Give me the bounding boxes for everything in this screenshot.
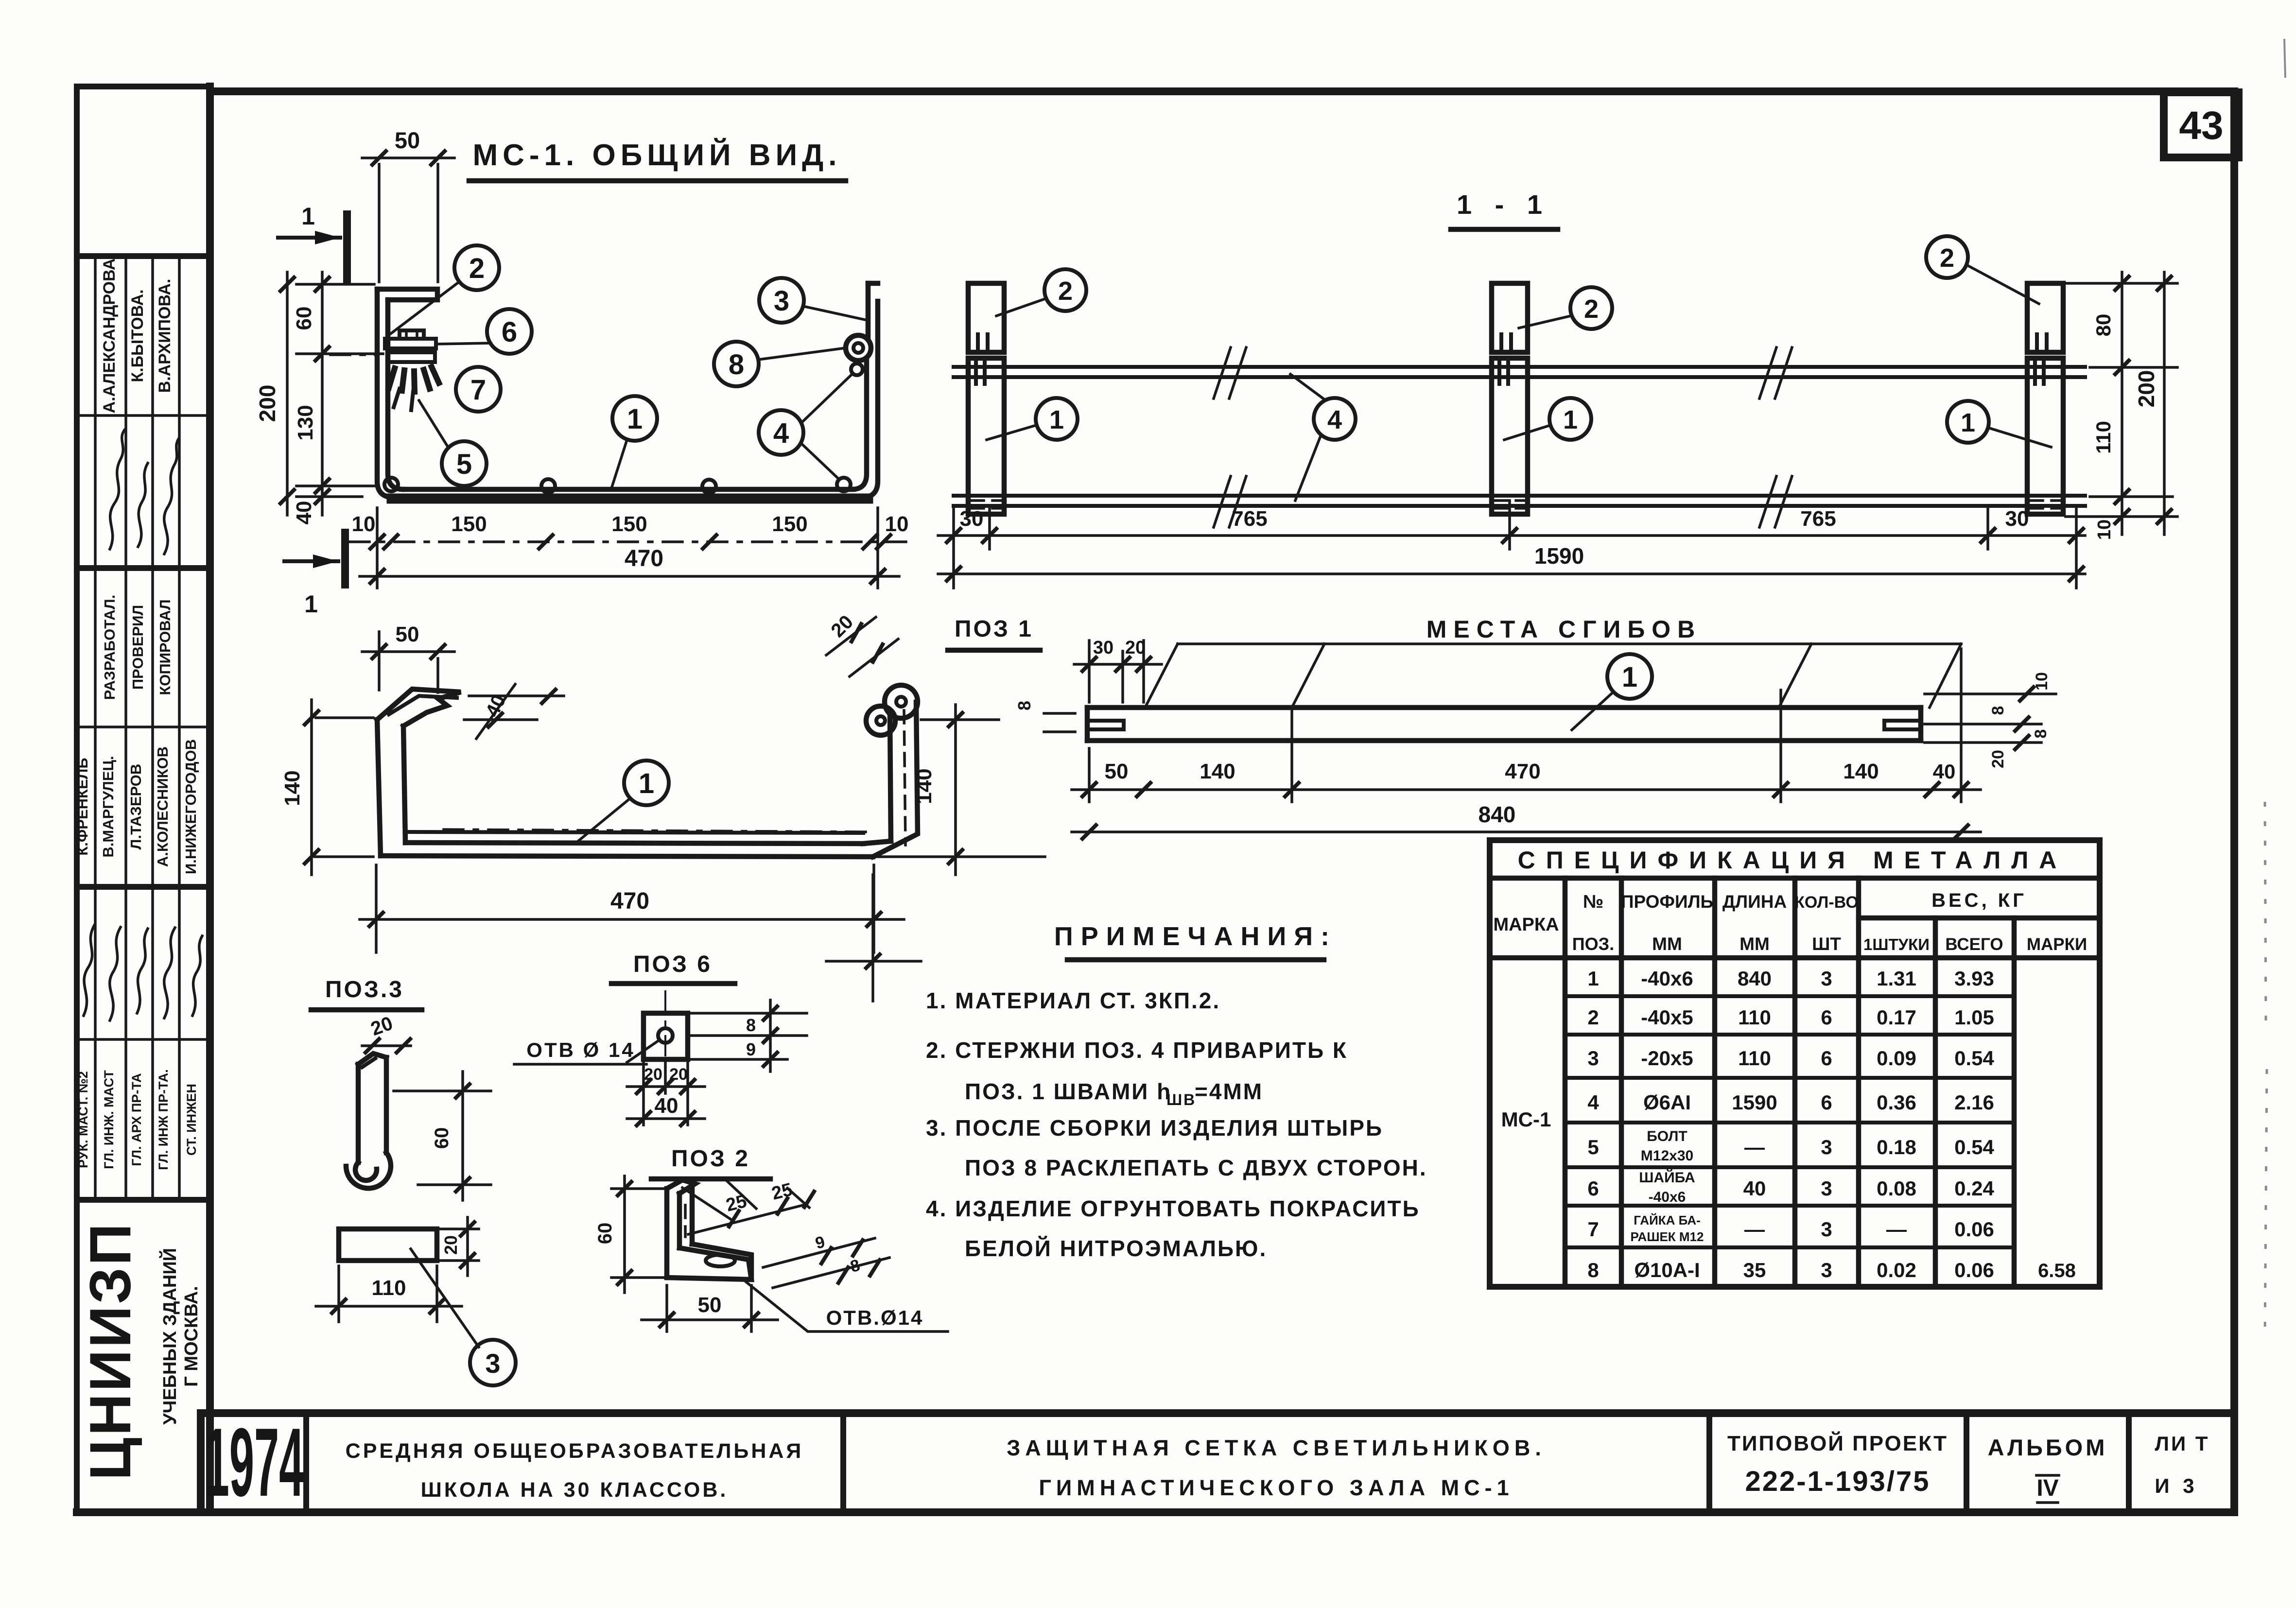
poz 2 hole label ОТВ.Ø14 xyxy=(746,1282,948,1331)
svg-text:50: 50 xyxy=(698,1293,722,1317)
svg-text:470: 470 xyxy=(610,888,649,914)
svg-text:—: — xyxy=(1744,1218,1765,1241)
svg-text:20: 20 xyxy=(644,1065,662,1084)
3D view right dim 140 xyxy=(875,705,1045,875)
svg-text:60: 60 xyxy=(594,1223,616,1245)
svg-text:К.БЫТОВА.: К.БЫТОВА. xyxy=(128,289,147,382)
bottom dims 10/150/150/150/10 xyxy=(350,508,909,588)
bottom rail visible across posts xyxy=(965,496,2067,506)
sheet number box 43 xyxy=(2164,92,2239,157)
svg-text:6: 6 xyxy=(502,316,517,348)
svg-text:2: 2 xyxy=(469,253,485,284)
development dims 50/140/470/140/40 xyxy=(1072,649,1981,802)
stamp column horizontal dividers xyxy=(77,256,210,1200)
right side dims of 1-1: 80/200/110/10 xyxy=(2066,272,2177,540)
svg-text:10: 10 xyxy=(2033,672,2051,691)
svg-text:ШАЙБА: ШАЙБА xyxy=(1639,1169,1695,1186)
svg-text:В.АРХИПОВА.: В.АРХИПОВА. xyxy=(156,279,174,393)
3D view dim 40 diagonal xyxy=(464,684,564,739)
svg-text:ВЕС, КГ: ВЕС, КГ xyxy=(1931,890,2027,911)
stray dim cross right of 3D view xyxy=(826,875,921,1001)
svg-text:4: 4 xyxy=(1327,405,1342,434)
section mark 1 bottom xyxy=(284,533,345,618)
faint scan marks right margin xyxy=(2265,39,2285,1336)
svg-text:ПОЗ 8 РАСКЛЕПАТЬ С ДВУХ С: ПОЗ 8 РАСКЛЕПАТЬ С ДВУХ СТОРОН. xyxy=(965,1155,1427,1180)
dim column 60/130/40 left xyxy=(292,272,383,524)
svg-text:6: 6 xyxy=(1821,1006,1832,1029)
svg-text:30: 30 xyxy=(960,507,984,531)
break marks on rails xyxy=(1214,347,1792,527)
svg-text:МС-1: МС-1 xyxy=(1501,1108,1551,1131)
svg-text:4. ИЗДЕЛИЕ ОГРУНТОВАТЬ ПО: 4. ИЗДЕЛИЕ ОГРУНТОВАТЬ ПОКРАСИТЬ xyxy=(926,1196,1420,1221)
svg-text:0.18: 0.18 xyxy=(1877,1136,1916,1158)
svg-text:IV: IV xyxy=(2036,1475,2058,1501)
svg-text:И.НИЖЕГОРОДОВ: И.НИЖЕГОРОДОВ xyxy=(182,739,199,874)
svg-text:8: 8 xyxy=(1989,706,2007,715)
balloon 7 xyxy=(456,367,501,412)
svg-text:ПОЗ.: ПОЗ. xyxy=(1572,934,1614,954)
svg-text:222-1-193/75: 222-1-193/75 xyxy=(1745,1466,1930,1497)
svg-text:1.31: 1.31 xyxy=(1877,967,1916,990)
3D view balloon 1 xyxy=(577,761,669,842)
svg-text:1 - 1: 1 - 1 xyxy=(1457,189,1550,220)
title strip: album xyxy=(1988,1435,2108,1503)
svg-text:9: 9 xyxy=(746,1039,756,1059)
svg-text:№: № xyxy=(1583,892,1603,912)
svg-text:ГЛ. АРХ ПР-ТА: ГЛ. АРХ ПР-ТА xyxy=(129,1073,144,1166)
left wall (3D) xyxy=(377,720,381,856)
спецификация металла table xyxy=(1490,840,2100,1287)
svg-text:2: 2 xyxy=(1584,294,1599,324)
svg-text:0.17: 0.17 xyxy=(1877,1006,1916,1029)
svg-text:140: 140 xyxy=(280,770,304,806)
svg-text:ОТВ.Ø14: ОТВ.Ø14 xyxy=(826,1306,924,1329)
svg-text:1974: 1974 xyxy=(205,1408,304,1517)
svg-text:1: 1 xyxy=(1049,405,1064,434)
bottom dims of 1-1: 30/765/765/30 xyxy=(938,501,2085,588)
poz 2 angle bracket 3D xyxy=(667,1180,751,1279)
svg-text:2: 2 xyxy=(1940,243,1954,273)
svg-text:1. МАТЕРИАЛ СТ. 3КП.2.: 1. МАТЕРИАЛ СТ. 3КП.2. xyxy=(926,988,1220,1013)
balloon 4 (1-1) xyxy=(1290,374,1356,501)
svg-text:3: 3 xyxy=(774,285,789,317)
poz 2 detail label xyxy=(651,1146,770,1179)
title strip: project number xyxy=(1727,1431,1948,1497)
svg-text:0.54: 0.54 xyxy=(1954,1136,1994,1158)
svg-text:1ШТУКИ: 1ШТУКИ xyxy=(1863,935,1930,953)
svg-text:0.54: 0.54 xyxy=(1954,1047,1994,1070)
svg-text:20: 20 xyxy=(669,1065,688,1084)
svg-text:0.24: 0.24 xyxy=(1954,1177,1994,1200)
svg-text:МАРКА: МАРКА xyxy=(1493,915,1559,935)
title strip: sheet xyxy=(2155,1432,2209,1497)
svg-text:Ø6АI: Ø6АI xyxy=(1643,1091,1691,1114)
stamp rotated names band 2 xyxy=(74,739,199,874)
channel bottom xyxy=(392,494,868,504)
balloon 2 (cross-section) xyxy=(390,245,499,334)
svg-text:3: 3 xyxy=(1821,1259,1832,1281)
svg-text:7: 7 xyxy=(470,374,486,406)
svg-text:140: 140 xyxy=(1200,760,1235,783)
svg-text:0.06: 0.06 xyxy=(1954,1259,1994,1281)
development small dims 30 20 left xyxy=(1074,638,1162,702)
svg-text:Г МОСКВА.: Г МОСКВА. xyxy=(181,1286,202,1387)
table title row xyxy=(1490,876,2100,881)
svg-text:ГЛ. ИНЖ. МАСТ: ГЛ. ИНЖ. МАСТ xyxy=(102,1070,116,1169)
svg-text:0.02: 0.02 xyxy=(1877,1259,1916,1281)
svg-text:30: 30 xyxy=(2005,507,2029,531)
svg-text:ПОЗ 1: ПОЗ 1 xyxy=(955,616,1033,642)
svg-text:2. СТЕРЖНИ ПОЗ. 4 ПРИВАРИТ: 2. СТЕРЖНИ ПОЗ. 4 ПРИВАРИТЬ К xyxy=(926,1037,1348,1063)
bottom dim 1590 of 1-1 xyxy=(938,543,2085,581)
svg-text:КОЛ-ВО: КОЛ-ВО xyxy=(1794,893,1859,912)
svg-text:140: 140 xyxy=(912,768,936,804)
stamp signatures band 2 xyxy=(84,925,202,1020)
svg-text:3: 3 xyxy=(1821,1136,1832,1158)
right S-hook end xyxy=(1918,708,1924,741)
balloon 1 right (1-1) xyxy=(1947,401,2051,447)
table row lines xyxy=(1565,994,2014,998)
svg-text:-40x6: -40x6 xyxy=(1641,967,1693,990)
svg-text:ПОЗ. 1 ШВАМИ h: ПОЗ. 1 ШВАМИ h xyxy=(965,1079,1172,1104)
cross-section МС-1: channel body poz 1 xyxy=(377,283,878,499)
svg-text:140: 140 xyxy=(1843,760,1879,783)
svg-text:1590: 1590 xyxy=(1732,1091,1777,1114)
poz 3 dim 60 (right of hook) xyxy=(394,1072,491,1200)
poz 3 hook 3D xyxy=(346,1054,391,1188)
svg-text:6: 6 xyxy=(1587,1177,1599,1200)
balloon 2 center (1-1) xyxy=(1519,287,1612,329)
balloon 5 xyxy=(419,400,487,486)
poz 6 right dims 8/9 xyxy=(690,1000,807,1072)
svg-text:ДЛИНА: ДЛИНА xyxy=(1722,892,1787,912)
svg-text:110: 110 xyxy=(1738,1006,1771,1029)
top lip (3D) with notch xyxy=(377,689,461,726)
svg-text:СТ. ИНЖЕН: СТ. ИНЖЕН xyxy=(184,1084,199,1156)
svg-text:3: 3 xyxy=(1587,1047,1599,1070)
svg-text:ЛИ Т: ЛИ Т xyxy=(2155,1432,2210,1455)
svg-text:ЗАЩИТНАЯ СЕТКА СВЕТИЛЬНИКО: ЗАЩИТНАЯ СЕТКА СВЕТИЛЬНИКОВ. xyxy=(1007,1435,1546,1460)
title МС-1 Общий вид xyxy=(469,138,846,181)
svg-text:0.09: 0.09 xyxy=(1877,1047,1916,1070)
svg-text:1: 1 xyxy=(1563,405,1578,434)
svg-text:30: 30 xyxy=(1093,638,1113,658)
svg-text:8: 8 xyxy=(729,349,744,380)
svg-text:8: 8 xyxy=(1014,701,1034,710)
svg-text:40: 40 xyxy=(292,501,316,525)
svg-text:50: 50 xyxy=(1105,760,1129,783)
svg-text:110: 110 xyxy=(2092,421,2115,454)
bottom slab (3D) xyxy=(381,856,873,857)
svg-text:8: 8 xyxy=(1587,1259,1599,1281)
svg-text:-40х6: -40х6 xyxy=(1649,1189,1686,1205)
svg-text:840: 840 xyxy=(1738,967,1772,990)
horizontal leg top face xyxy=(667,1248,751,1279)
svg-text:Л.ТАЗЕРОВ: Л.ТАЗЕРОВ xyxy=(127,764,144,850)
stamp signatures band 1 xyxy=(110,430,179,554)
svg-text:ПРОВЕРИЛ: ПРОВЕРИЛ xyxy=(129,605,146,690)
stamp rotated roles band 2 xyxy=(76,1069,199,1170)
stamp logo ЦНИИЭП xyxy=(78,1222,202,1480)
svg-text:1: 1 xyxy=(1622,661,1637,693)
bolt head xyxy=(400,330,424,339)
svg-text:3: 3 xyxy=(1821,1177,1832,1200)
svg-text:6.58: 6.58 xyxy=(2038,1260,2076,1281)
poz 1 development strip xyxy=(1087,708,1921,741)
svg-text:765: 765 xyxy=(1232,507,1267,531)
svg-text:ГАЙКА БА-: ГАЙКА БА- xyxy=(1634,1213,1701,1228)
svg-text:БОЛТ: БОЛТ xyxy=(1647,1128,1687,1144)
svg-text:ПРИМЕЧАНИЯ:: ПРИМЕЧАНИЯ: xyxy=(1054,922,1337,951)
rolled bottom curl xyxy=(346,1153,391,1188)
bolt assembly: washer poz 6, bolt poz 5, wing nut poz 7 xyxy=(330,330,439,410)
balloon 4 (cross-section) xyxy=(759,374,852,479)
svg-text:1: 1 xyxy=(627,403,643,435)
section 1-1: right post poz 1 with clamp poz 2 xyxy=(2027,283,2063,514)
svg-text:2: 2 xyxy=(1058,277,1073,306)
svg-text:КОПИРОВАЛ: КОПИРОВАЛ xyxy=(157,599,174,695)
svg-text:А.КОЛЕСНИКОВ: А.КОЛЕСНИКОВ xyxy=(154,746,171,867)
svg-text:3.93: 3.93 xyxy=(1954,967,1994,990)
svg-text:РАШЕК М12: РАШЕК М12 xyxy=(1631,1229,1704,1244)
poz 6 washer plate xyxy=(627,991,688,1081)
svg-text:20: 20 xyxy=(1989,750,2007,768)
svg-text:200: 200 xyxy=(2134,370,2159,408)
development right small dims 10/8/20 xyxy=(1925,672,2056,768)
svg-text:200: 200 xyxy=(255,385,280,422)
balloon 1 center (1-1) xyxy=(1504,398,1591,440)
svg-text:В.МАРГУЛЕЦ.: В.МАРГУЛЕЦ. xyxy=(100,756,117,857)
svg-text:ВСЕГО: ВСЕГО xyxy=(1945,935,2003,954)
svg-text:МЕСТА СГИБОВ: МЕСТА СГИБОВ xyxy=(1426,616,1702,643)
two-line profile cells xyxy=(1631,1128,1704,1244)
title strip: subject xyxy=(1007,1435,1546,1500)
svg-text:=4ММ: =4ММ xyxy=(1195,1079,1263,1104)
svg-text:2.16: 2.16 xyxy=(1954,1091,1994,1114)
balloon 1 (cross-section) xyxy=(611,396,657,488)
svg-text:43: 43 xyxy=(2179,104,2223,148)
svg-text:470: 470 xyxy=(625,546,663,571)
washer plate poz 6 xyxy=(385,339,436,348)
balloon 2 right (1-1) xyxy=(1926,236,2039,304)
3D view dim 50 xyxy=(362,622,454,692)
svg-text:ПОЗ 6: ПОЗ 6 xyxy=(633,951,712,977)
poz 2 dim 60 xyxy=(594,1176,663,1293)
svg-text:ЦНИИЗП: ЦНИИЗП xyxy=(78,1222,143,1480)
svg-text:0.08: 0.08 xyxy=(1877,1177,1916,1200)
svg-text:80: 80 xyxy=(2092,314,2115,337)
svg-text:ПОЗ.3: ПОЗ.3 xyxy=(325,977,404,1003)
svg-text:ММ: ММ xyxy=(1739,934,1770,954)
svg-text:6: 6 xyxy=(1821,1047,1832,1070)
svg-text:470: 470 xyxy=(1505,760,1540,783)
svg-text:150: 150 xyxy=(772,512,807,536)
svg-text:ММ: ММ xyxy=(1652,934,1682,954)
balloon 8 xyxy=(714,342,846,386)
poz 3 bar dim 110 xyxy=(316,1266,462,1322)
svg-text:МАРКИ: МАРКИ xyxy=(2027,935,2087,954)
bottom title strip xyxy=(201,1413,2234,1512)
wall lip lines at bolt level xyxy=(388,352,435,362)
rod circles poz 4 in bottom xyxy=(384,478,398,491)
svg-text:ШКОЛА НА 30 КЛАССОВ.: ШКОЛА НА 30 КЛАССОВ. xyxy=(421,1478,729,1502)
hook strip poz 3 upper right xyxy=(866,283,871,338)
svg-text:АЛЬБОМ: АЛЬБОМ xyxy=(1988,1435,2108,1460)
poz 1 development label xyxy=(948,616,1040,650)
svg-text:2: 2 xyxy=(1587,1006,1599,1029)
section 1-1 title xyxy=(1451,189,1558,229)
svg-text:3: 3 xyxy=(1821,967,1832,990)
left stamp column outer box xyxy=(77,86,210,1512)
svg-text:ПОЗ 2: ПОЗ 2 xyxy=(671,1146,750,1172)
svg-text:1590: 1590 xyxy=(1534,543,1584,569)
bottom dim 470 (cross-section) xyxy=(360,546,899,583)
title strip: school name xyxy=(346,1439,804,1502)
svg-text:СРЕДНЯЯ ОБЩЕОБРАЗОВАТЕЛЬНАЯ: СРЕДНЯЯ ОБЩЕОБРАЗОВАТЕЛЬНАЯ xyxy=(346,1439,804,1463)
development left dim 8 xyxy=(1014,701,1075,732)
svg-text:1: 1 xyxy=(1961,408,1975,437)
poz 3 balloon 3 xyxy=(411,1249,516,1385)
svg-text:40: 40 xyxy=(1743,1177,1766,1200)
svg-text:40: 40 xyxy=(1933,760,1956,783)
svg-text:3. ПОСЛЕ СБОРКИ ИЗДЕЛИЯ Ш: 3. ПОСЛЕ СБОРКИ ИЗДЕЛИЯ ШТЫРЬ xyxy=(926,1115,1383,1141)
svg-text:МС-1. ОБЩИЙ ВИД.: МС-1. ОБЩИЙ ВИД. xyxy=(472,138,841,172)
svg-text:1: 1 xyxy=(1587,967,1599,990)
svg-text:ОТВ Ø 14: ОТВ Ø 14 xyxy=(526,1038,635,1061)
poz 6 detail label xyxy=(611,951,735,984)
svg-text:Ø10А-I: Ø10А-I xyxy=(1634,1259,1700,1281)
development total dim 840 xyxy=(1072,802,1981,839)
svg-text:-40x5: -40x5 xyxy=(1641,1006,1693,1029)
svg-text:130: 130 xyxy=(294,405,317,440)
svg-text:20: 20 xyxy=(441,1235,461,1255)
svg-text:1: 1 xyxy=(304,590,318,618)
balloon 6 xyxy=(437,309,532,354)
svg-text:УЧЕБНЫХ ЗДАНИЙ: УЧЕБНЫХ ЗДАНИЙ xyxy=(158,1248,180,1425)
poz 3 flat bar xyxy=(339,1229,437,1261)
balloon 1 left (1-1) xyxy=(987,398,1078,440)
svg-text:А.АЛЕКСАНДРОВА: А.АЛЕКСАНДРОВА xyxy=(100,259,119,414)
svg-text:8: 8 xyxy=(2032,729,2050,739)
svg-text:СПЕЦИФИКАЦИЯ МЕТАЛЛА: СПЕЦИФИКАЦИЯ МЕТАЛЛА xyxy=(1518,847,2068,874)
svg-text:150: 150 xyxy=(451,512,487,536)
svg-text:50: 50 xyxy=(396,622,419,646)
bolt axis dashes xyxy=(330,353,377,356)
svg-text:1: 1 xyxy=(301,203,315,230)
svg-text:1.05: 1.05 xyxy=(1954,1006,1994,1029)
balloon 3 xyxy=(759,278,865,323)
svg-text:10: 10 xyxy=(2094,519,2115,540)
svg-text:60: 60 xyxy=(292,307,316,330)
svg-text:ПРОФИЛЬ: ПРОФИЛЬ xyxy=(1621,892,1713,912)
svg-text:ШТ: ШТ xyxy=(1812,934,1841,954)
svg-text:5: 5 xyxy=(456,449,472,480)
table data rows xyxy=(1587,967,1994,1281)
svg-text:110: 110 xyxy=(1738,1047,1771,1070)
svg-text:4: 4 xyxy=(773,417,789,449)
примечания title xyxy=(1054,922,1337,960)
svg-text:150: 150 xyxy=(611,512,647,536)
3D view bottom dim 470 xyxy=(360,865,904,952)
svg-text:6: 6 xyxy=(1821,1091,1832,1114)
svg-text:20: 20 xyxy=(1125,638,1146,658)
rolled hinge circles (3D) xyxy=(885,685,918,718)
svg-text:РУК. МАСТ. №2: РУК. МАСТ. №2 xyxy=(76,1071,90,1168)
wing nut poz 7 wings xyxy=(389,368,395,388)
svg-text:БЕЛОЙ НИТРОЭМАЛЬЮ.: БЕЛОЙ НИТРОЭМАЛЬЮ. xyxy=(965,1236,1267,1261)
poz 3 dim 20 (top) xyxy=(362,1013,411,1053)
dim 200 outer left xyxy=(255,272,294,515)
svg-text:5: 5 xyxy=(1587,1136,1599,1158)
svg-text:РАЗРАБОТАЛ.: РАЗРАБОТАЛ. xyxy=(101,595,118,700)
poz 2 dims 25 25 xyxy=(682,1178,814,1234)
svg-text:К.ФРЕНКЕЛЬ: К.ФРЕНКЕЛЬ xyxy=(74,758,91,855)
bend location marks xyxy=(1145,644,1961,708)
svg-text:110: 110 xyxy=(372,1276,406,1300)
svg-text:7: 7 xyxy=(1587,1218,1599,1241)
svg-text:—: — xyxy=(1744,1136,1765,1158)
poz 2 small dims 9 8 right xyxy=(763,1233,889,1288)
right wall (3D) xyxy=(890,714,891,841)
svg-text:10: 10 xyxy=(885,512,909,536)
section mark 1 top xyxy=(278,203,347,281)
section 1-1: rails poz 4 xyxy=(954,367,2085,506)
right wall xyxy=(861,301,878,498)
poz 1 3D view: channel xyxy=(377,685,918,857)
svg-text:765: 765 xyxy=(1800,507,1836,531)
svg-text:-20x5: -20x5 xyxy=(1641,1047,1693,1070)
svg-text:—: — xyxy=(1886,1218,1907,1241)
balloon 1 (development) xyxy=(1572,654,1652,730)
stamp column vertical sublines xyxy=(95,256,179,1200)
примечания notes text xyxy=(926,988,1427,1261)
stamp rotated roles band 1 xyxy=(101,595,174,700)
svg-text:ТИПОВОЙ ПРОЕКТ: ТИПОВОЙ ПРОЕКТ xyxy=(1727,1431,1948,1455)
svg-text:3: 3 xyxy=(1821,1218,1832,1241)
section 1-1: center post poz 1 with clamp poz 2 xyxy=(1492,283,1528,514)
svg-text:М12х30: М12х30 xyxy=(1641,1148,1693,1164)
stamp rotated names band 1 xyxy=(100,259,174,414)
poz 6 hole label ОТВ Ø14 xyxy=(514,1038,646,1064)
left wall xyxy=(377,289,395,498)
svg-text:0.36: 0.36 xyxy=(1877,1091,1916,1114)
svg-text:35: 35 xyxy=(1743,1259,1766,1281)
svg-text:ШВ: ШВ xyxy=(1166,1091,1196,1108)
3D view dim 20 diagonal top right xyxy=(826,611,898,676)
svg-text:60: 60 xyxy=(431,1127,452,1149)
svg-text:И 3: И 3 xyxy=(2155,1474,2198,1497)
svg-text:1: 1 xyxy=(639,768,654,799)
poz 6 bottom dims 20 20 / 40 xyxy=(627,1062,705,1125)
section 1-1: left post poz 1 with clamp poz 2 xyxy=(968,283,1004,514)
table header lines xyxy=(1859,916,2100,921)
dim 50 (top of cross-section) xyxy=(362,127,454,282)
top lip left xyxy=(377,289,437,300)
balloon 2 left (1-1) xyxy=(996,269,1086,316)
svg-text:ГЛ. ИНЖ ПР-ТА.: ГЛ. ИНЖ ПР-ТА. xyxy=(156,1069,171,1170)
svg-text:840: 840 xyxy=(1478,802,1516,827)
svg-text:0.06: 0.06 xyxy=(1954,1218,1994,1241)
svg-text:10: 10 xyxy=(352,512,376,536)
svg-text:ГИМНАСТИЧЕСКОГО ЗАЛА МС-1: ГИМНАСТИЧЕСКОГО ЗАЛА МС-1 xyxy=(1039,1475,1513,1500)
svg-text:4: 4 xyxy=(1587,1091,1599,1114)
poz 2 dim 50 xyxy=(642,1285,778,1331)
poz 3 bar dim 20 right xyxy=(440,1217,479,1276)
3D view left dim 140 xyxy=(280,700,373,875)
rod circle below pivot xyxy=(851,363,863,375)
left S-hook end xyxy=(1085,708,1090,741)
svg-text:8: 8 xyxy=(746,1015,756,1035)
